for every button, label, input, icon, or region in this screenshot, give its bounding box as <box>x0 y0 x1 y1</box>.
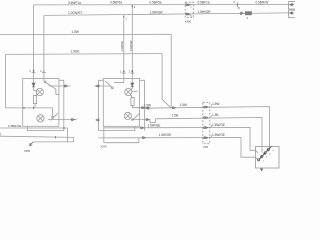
junction tick on L2 <box>55 136 57 138</box>
wire stub W2 inside lamp unit <box>261 147 263 153</box>
switch S2b pivot dot <box>132 119 134 121</box>
block1 pin tick 4 <box>32 71 36 73</box>
wire H2 second feed <box>44 13 289 16</box>
svg-text:1.5GE: 1.5GE <box>71 50 80 54</box>
svg-text:1.5W: 1.5W <box>212 102 219 106</box>
junction tick V1b at H1 <box>131 5 133 7</box>
wire stub W4 inside lamp unit <box>255 157 257 159</box>
svg-text:1.5W: 1.5W <box>144 104 151 108</box>
wire resistor R1 to bus <box>34 104 36 108</box>
pin arrow block2 left upper <box>96 85 99 88</box>
svg-text:0.5BF1a: 0.5BF1a <box>198 1 210 5</box>
svg-text:1: 1 <box>263 161 265 163</box>
svg-text:1.5BR/GE: 1.5BR/GE <box>8 124 22 128</box>
pin blob block1 V2 <box>43 71 45 73</box>
pin arrow W4 <box>143 136 146 139</box>
wire V1 block1 supply <box>33 5 35 91</box>
svg-text:2: 2 <box>134 6 136 9</box>
block2 housing box <box>103 78 139 126</box>
wire H4 left vertical <box>5 54 7 108</box>
wire V2b block2 switch supply <box>123 15 125 82</box>
svg-text:A: A <box>233 1 235 4</box>
wire W1 1.5W node A to lamp unit <box>145 107 269 147</box>
splice connector on H2 <box>241 11 252 15</box>
svg-text:1: 1 <box>126 17 128 20</box>
wire V2 block1 switch supply <box>43 15 45 81</box>
switch S2 block1 pivot dot <box>52 116 54 118</box>
svg-text:3: 3 <box>269 154 271 156</box>
svg-text:1.5W: 1.5W <box>72 30 79 34</box>
ground arrow block1 <box>30 142 34 146</box>
svg-text:1: 1 <box>120 71 122 74</box>
svg-text:1.5W/GR: 1.5W/GR <box>198 10 212 14</box>
pin arrow block1 switch output <box>72 118 75 121</box>
connector X18 dashed column <box>203 102 210 143</box>
block1 housing box <box>23 78 59 126</box>
wire resistor R2 to bus <box>133 105 151 107</box>
junction tick V2b at H2 <box>123 16 125 18</box>
wire W2 to connector <box>155 117 262 146</box>
block1 outer housing right <box>28 80 64 130</box>
pin X300 on H2 <box>186 13 190 15</box>
pin X300 on H1 <box>186 4 190 6</box>
wire V1b block2 supply <box>131 5 133 89</box>
pin X18-3 <box>204 127 208 129</box>
block2 outer housing left <box>99 80 135 130</box>
wire diagonal into node A <box>162 99 171 108</box>
svg-text:0.5BF5a: 0.5BF5a <box>110 1 122 5</box>
junction arrow node A <box>173 107 176 110</box>
block2 outer housing right <box>140 80 145 130</box>
wire H4 1.5GE <box>6 53 163 56</box>
lamp E3 block2 upper bulb <box>125 88 133 97</box>
wire block2 switch output with step <box>131 119 155 123</box>
svg-text:0.5BF5a: 0.5BF5a <box>150 1 162 5</box>
svg-text:1.5W/GE: 1.5W/GE <box>212 133 225 137</box>
svg-text:1.5B: 1.5B <box>212 113 219 117</box>
wire V1 to lamp E1 <box>34 89 38 92</box>
svg-text:X255: X255 <box>24 149 31 153</box>
pin arrow W3 <box>141 127 144 130</box>
svg-text:X300: X300 <box>185 19 192 23</box>
stub below lamp unit <box>261 168 263 171</box>
wire block1 internal bus y108 <box>6 108 53 117</box>
wire ground return L2 block1 <box>0 136 74 142</box>
block1 pin tick 2 <box>42 71 46 73</box>
svg-text:1.5W/GE: 1.5W/GE <box>159 133 172 137</box>
svg-text:1.5W: 1.5W <box>180 103 187 107</box>
svg-text:1.5W/GE: 1.5W/GE <box>212 123 225 127</box>
pin fan labels <box>263 150 275 163</box>
wire V1b to lamp E3 <box>131 88 133 89</box>
pin X18-4 <box>204 137 208 139</box>
svg-text:1.5B: 1.5B <box>172 113 179 117</box>
wire H3 vertical drop to node A <box>170 34 172 108</box>
svg-text:4: 4 <box>246 16 248 20</box>
wire block1 switch output <box>48 119 77 121</box>
wire W4 1.5W/GE lower <box>99 138 256 158</box>
connector X300 dashed box <box>185 2 193 17</box>
pin blob block1 V1 <box>33 70 35 72</box>
wire V2b jog to switch S1b <box>114 82 124 84</box>
pin arrow block2 bus right <box>142 106 145 109</box>
switch S1 block1 arm <box>46 83 59 95</box>
wire H1 top feed 0.5BF <box>34 3 289 6</box>
svg-text:T: T <box>0 133 2 137</box>
connector box right top K1 <box>289 2 296 9</box>
svg-text:2: 2 <box>266 157 268 159</box>
wire block2 lamp stub right <box>132 90 137 92</box>
lamp E2 block1 lower bulb <box>37 115 44 122</box>
switch S1b block2 pivot <box>111 87 113 89</box>
switch S2 block1 arm <box>51 113 58 120</box>
svg-text:1.5W/GE: 1.5W/GE <box>120 41 124 52</box>
switch S1 block1 pivot <box>44 81 46 83</box>
junction tick bus V1 <box>33 107 35 109</box>
wire W3 1.5W/GE upper <box>104 127 256 150</box>
pin X18-2 <box>204 117 208 119</box>
lamp E4 block2 lower bulb <box>124 112 131 119</box>
pin glyph K1 <box>290 4 294 6</box>
svg-text:1.5W/GE: 1.5W/GE <box>148 123 161 127</box>
pin glyph K2 <box>290 12 294 14</box>
lamp E1 block1 upper bulb <box>34 88 44 95</box>
junction tick on L1 <box>63 127 65 129</box>
wire block2 stub pin left upper <box>94 85 111 87</box>
block2 pin tick 1 <box>122 72 126 74</box>
svg-text:0.5WF1a: 0.5WF1a <box>68 1 81 5</box>
pin arrow block1 right upper <box>65 85 68 88</box>
pin tick block1 left bus entry <box>23 107 25 109</box>
pin arrow block2 left lower <box>96 119 99 122</box>
junction tick on H1 at fuse point <box>236 3 238 7</box>
resistor R1 block1 <box>33 96 36 104</box>
svg-text:X254: X254 <box>101 145 108 149</box>
svg-text:1.5W/GR: 1.5W/GR <box>150 10 164 14</box>
block2 pin tick 2 <box>130 72 134 74</box>
wire stub W3 inside lamp unit <box>255 150 258 153</box>
svg-text:4: 4 <box>29 70 31 73</box>
pin blob block2 V2b <box>123 71 125 73</box>
svg-text:X18: X18 <box>203 145 208 149</box>
switch S2b block2 arm <box>133 113 140 120</box>
pin arrow block2 switch output <box>146 118 149 121</box>
wire block2 bottom vertical <box>103 126 105 142</box>
pin X18-1 <box>204 106 208 108</box>
svg-text:1: 1 <box>190 6 192 9</box>
wire lamp E1 to resistor R1 <box>35 94 37 95</box>
wire block1 stub pin right upper <box>49 85 71 87</box>
svg-text:1.0GN/RT: 1.0GN/RT <box>68 11 82 15</box>
diode D1 block1 <box>32 83 35 87</box>
pin fan in lamp unit <box>258 146 272 161</box>
wire lamp E3 to resistor R2 <box>131 95 133 98</box>
pin arrow W1 left end <box>146 107 149 110</box>
wire ground return L1 block1 <box>0 128 67 142</box>
wire H4 right vertical <box>161 54 163 100</box>
svg-text:4: 4 <box>272 150 274 152</box>
wire block2 ground base <box>104 138 139 143</box>
wire H3 1.5W <box>0 33 171 35</box>
wire ground base block1 <box>33 141 73 143</box>
svg-text:0.5BR/W: 0.5BR/W <box>256 1 269 5</box>
lamp unit box bottom right <box>255 147 279 168</box>
svg-text:B: B <box>238 7 240 10</box>
resistor R2 block2 <box>131 98 134 106</box>
svg-text:1.5W/SW: 1.5W/SW <box>129 40 133 52</box>
switch S1b block2 arm <box>105 81 111 87</box>
connector box right lower K2 <box>289 10 296 18</box>
pin blob block2 V1b <box>131 71 133 73</box>
diode D2 block2 <box>131 83 134 87</box>
wire stub W1 inside lamp unit <box>269 147 271 149</box>
